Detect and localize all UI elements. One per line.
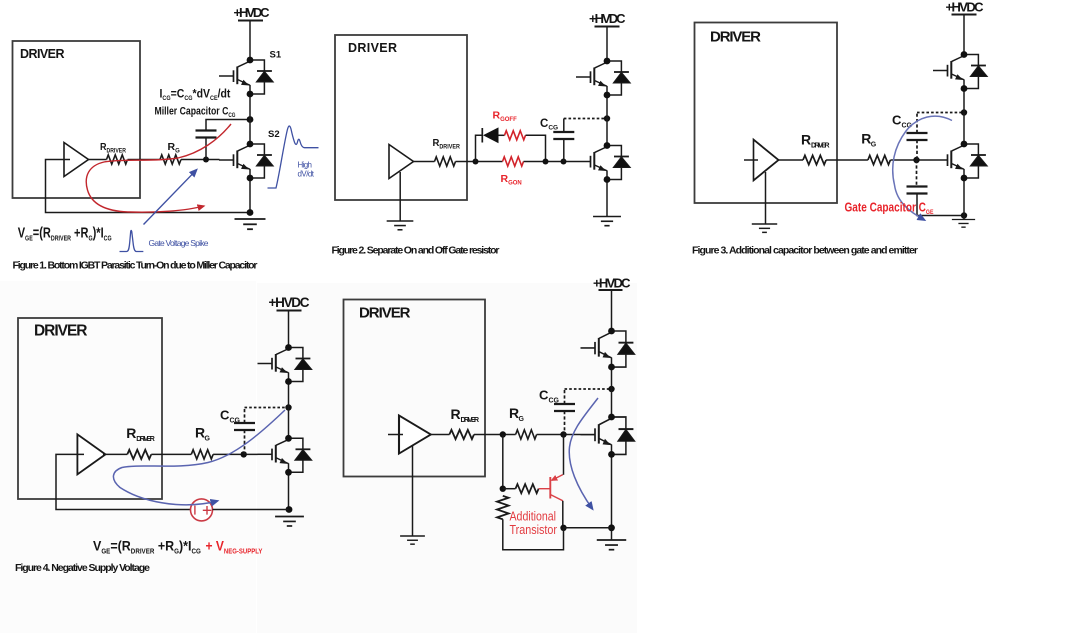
wire input feedback + bottom return F1 <box>46 160 251 213</box>
blue bypass curve F3 <box>893 116 952 220</box>
svg-text:DRIVER: DRIVER <box>20 47 65 61</box>
op-amp U3 <box>754 140 779 181</box>
svg-text:G: G <box>205 436 211 443</box>
svg-text:RG: RG <box>168 141 181 155</box>
dashed stub CCG up F4 <box>244 408 246 424</box>
svg-text:CCG: CCG <box>540 118 558 132</box>
wire op-amp to ground F3 <box>765 172 767 224</box>
svg-text:DRIVER: DRIVER <box>461 417 480 424</box>
wire bottom rail to ground F2 <box>606 180 608 217</box>
svg-text:+HVDC: +HVDC <box>269 295 310 310</box>
wire op-amp output F3 <box>779 159 804 161</box>
dashed stub CCG down F5 <box>564 411 566 435</box>
driver box F3 <box>695 23 838 204</box>
svg-text:+HVDC: +HVDC <box>234 5 271 20</box>
ground rail F3 <box>952 220 975 228</box>
figure 5 canvas tint <box>257 283 637 633</box>
driver box F2 <box>335 35 467 200</box>
red current loop curve F1 <box>86 124 231 212</box>
node emitter return F5 <box>608 524 615 531</box>
svg-text:R: R <box>451 406 461 422</box>
wire S2 emitter to ground F1 <box>249 178 251 213</box>
transistor QADD collector line <box>550 495 563 501</box>
svg-text:Figure 1. Bottom IGBT Parasiti: Figure 1. Bottom IGBT Parasitic Turn-On … <box>13 260 258 272</box>
ground driver F3 <box>752 224 777 232</box>
wire bottom rail F5 <box>611 454 613 540</box>
node bottom emitter F4 <box>285 469 292 476</box>
op-amp U4 <box>77 434 105 474</box>
node top emitter F2 <box>604 92 611 99</box>
supply bar F4 <box>277 310 302 312</box>
node base branch F5 <box>500 486 506 492</box>
capacitor CGE F3 <box>907 187 928 194</box>
svg-text:Gate Capacitor CGE: Gate Capacitor CGE <box>845 202 934 217</box>
node ground F1 <box>247 209 254 216</box>
wire off-branch up F2 <box>476 135 483 161</box>
node bottom collector F3 <box>961 141 968 148</box>
svg-text:RDRIVER: RDRIVER <box>433 138 461 151</box>
wire bottom rail F3 <box>963 178 965 220</box>
node dashed tap F4 <box>285 404 291 410</box>
wire RG to gate F4 <box>213 453 257 455</box>
transistor top IGBT F3 <box>933 55 987 89</box>
capacitor CCG F1 <box>196 131 217 138</box>
op-amp U1 <box>64 143 89 177</box>
node dashed tap F3 <box>961 109 967 115</box>
svg-text:RGON: RGON <box>501 173 522 187</box>
wire op-amp output F2 <box>414 161 435 163</box>
node gate F3 <box>913 157 919 163</box>
svg-text:G: G <box>871 141 877 148</box>
node top collector F2 <box>604 58 611 65</box>
svg-text:DRIVER: DRIVER <box>34 323 88 340</box>
wire midrail F5 <box>611 367 613 417</box>
ground F1 <box>235 219 266 229</box>
node S2 emitter <box>247 175 254 182</box>
dashed link CCG to midpoint F5 <box>565 388 612 390</box>
svg-text:Transistor: Transistor <box>510 523 558 537</box>
wire midrail F2 <box>606 95 608 146</box>
transistor S1 IGBT <box>219 60 273 94</box>
wire pulldown loop F5 <box>503 519 564 550</box>
transistor QADD base bar <box>549 477 551 499</box>
supply bar F5 <box>599 289 623 291</box>
transistor QADD emitter line <box>552 475 563 481</box>
dashed link CCG to midpoint F2 <box>564 118 607 120</box>
svg-text:Additional: Additional <box>510 510 557 524</box>
node CCG tap F5 <box>560 431 566 437</box>
blue spike glyph F1 <box>120 230 144 251</box>
dashed link CCG to midpoint F4 <box>245 407 289 409</box>
wire op-amp output F4 <box>103 453 127 455</box>
wire midrail F3 <box>963 89 965 145</box>
node S1 collector <box>247 57 254 64</box>
blue loop curve F4 <box>113 410 285 505</box>
node top collector F4 <box>285 344 292 351</box>
resistor RGON <box>503 157 524 166</box>
svg-text:Figure 4. Negative Supply Volt: Figure 4. Negative Supply Voltage <box>15 562 150 574</box>
wire branch down from node F5 <box>502 435 504 489</box>
wire RG to gate F5 <box>537 434 581 436</box>
svg-text:S2: S2 <box>268 129 280 140</box>
dashed link CCG to midpoint F3 <box>917 112 964 114</box>
svg-text:RDRIVER: RDRIVER <box>100 141 126 154</box>
resistor RG F5 <box>516 430 537 439</box>
svg-text:Figure 2. Separate On and Off: Figure 2. Separate On and Off Gate resis… <box>332 245 500 257</box>
transistor top IGBT F2 <box>576 61 630 95</box>
wire bottom link to rail F5 <box>564 527 612 529</box>
wire input stub F5 <box>388 434 403 436</box>
diode DOFF body <box>483 127 499 143</box>
wire S1 emitter to S2 collector <box>249 94 251 144</box>
dashed stub CCG down F4 <box>244 430 246 454</box>
svg-text:VGE=(RDRIVER +RG)*ICG: VGE=(RDRIVER +RG)*ICG <box>18 224 112 243</box>
node after RDRIVER F5 <box>500 431 506 437</box>
capacitor CCG F4 <box>234 423 255 430</box>
wire diode to RGOFF <box>499 134 505 136</box>
node bottom emitter F2 <box>604 176 611 183</box>
wire bottom rail F4 <box>288 472 290 509</box>
dashed stub CCG down F3 <box>916 140 918 160</box>
supply bar F3 <box>952 14 977 16</box>
resistor base F5 <box>516 484 539 493</box>
driver box F4 <box>18 318 162 499</box>
svg-text:CG: CG <box>549 398 560 405</box>
wire op-amp output F1 <box>89 159 107 161</box>
wire node to base resistor F5 <box>503 488 516 490</box>
wire QADD down to bottom node F5 <box>562 501 564 528</box>
svg-text:ICG=CCG*dVCE/dt: ICG=CCG*dVCE/dt <box>160 88 231 102</box>
wire HVDC rail F2 <box>606 27 608 62</box>
wire CGE to emitter rail F3 <box>917 194 964 216</box>
transistor bottom IGBT F2 <box>576 146 630 180</box>
node top emitter F3 <box>961 85 968 92</box>
wire RDRIVER to RG <box>128 159 161 161</box>
node QADD bottom F5 <box>560 525 566 531</box>
op-amp U5 <box>399 416 431 454</box>
supply bar F1 <box>238 20 263 22</box>
svg-text:DRIVER: DRIVER <box>348 41 397 55</box>
wire RDRIVER to RG F5 <box>474 434 516 436</box>
svg-text:C: C <box>220 408 230 423</box>
wire midrail F4 <box>288 382 290 439</box>
transistor bottom IGBT F3 <box>933 144 987 178</box>
resistor RG F1 <box>160 155 181 164</box>
resistor RDRIVER F4 <box>127 450 151 459</box>
node gate F1 <box>203 157 209 163</box>
node bottom collector F5 <box>608 414 615 421</box>
node dashed tap F2 <box>604 115 610 121</box>
svg-text:DRIVER: DRIVER <box>359 305 411 322</box>
dashed stub CCG up F3 <box>916 113 918 134</box>
node dashed tap F5 <box>608 386 614 392</box>
resistor RDRIVER F5 <box>449 430 474 439</box>
resistor RDRIVER F1 <box>107 155 128 164</box>
wire RG to gate F3 <box>890 159 933 161</box>
svg-text:CG: CG <box>230 418 241 425</box>
transistor S2 IGBT <box>219 144 273 178</box>
wire HVDC rail F3 <box>963 15 965 55</box>
node ground F4 <box>286 506 293 513</box>
capacitor CCG F2 <box>553 132 574 139</box>
node S2 collector <box>247 141 254 148</box>
resistor RG F4 <box>191 450 213 459</box>
wire gate node down to QADD F5 <box>563 435 565 475</box>
wire op-amp to ground F5 <box>412 445 414 536</box>
svg-text:dV/dt: dV/dt <box>298 170 315 179</box>
wire op-amp output F5 <box>431 434 450 436</box>
ground driver F2 <box>387 221 414 230</box>
wire input feedback + bottom return F4 <box>56 454 191 509</box>
svg-text:C: C <box>892 113 902 128</box>
node CCG tap F2 <box>561 159 567 165</box>
wire base resistor to transistor red F5 <box>539 488 551 490</box>
supply bar F2 <box>595 26 620 28</box>
svg-text:Figure 3. Additional capacitor: Figure 3. Additional capacitor between g… <box>692 245 918 257</box>
resistor pulldown F5 <box>497 496 509 520</box>
wire capacitor to midpoint node F1 <box>206 120 250 131</box>
resistor RDRIVER F2 <box>435 157 456 166</box>
svg-text:+HVDC: +HVDC <box>946 0 985 15</box>
voltage source circle F4 <box>191 499 213 521</box>
transistor bottom IGBT F5 <box>581 417 635 454</box>
label minus plus F4 <box>194 506 196 515</box>
node top emitter F4 <box>285 378 292 385</box>
svg-text:Miller Capacitor CCG: Miller Capacitor CCG <box>155 106 236 120</box>
blue gate-spike arrow F1 <box>144 170 197 225</box>
ground driver F5 <box>400 536 425 544</box>
dashed stub node to CGE F3 <box>916 160 918 187</box>
node RGOFF junction <box>543 159 549 165</box>
wire RGOFF down to gate line <box>526 135 546 161</box>
diode DOFF cathode bar <box>481 128 483 143</box>
svg-text:C: C <box>539 388 549 403</box>
node bottom collector F2 <box>604 142 611 149</box>
wire HVDC rail F5 <box>611 290 613 331</box>
wire RG to gate F1 <box>181 159 220 161</box>
wire input stub F3 <box>744 159 758 161</box>
wire RDRIVER to RG F4 <box>151 453 191 455</box>
svg-text:DRIVER: DRIVER <box>811 143 830 150</box>
wire node to capacitor CCG F1 <box>205 138 207 160</box>
transistor top IGBT F5 <box>581 331 635 367</box>
svg-text:+HVDC: +HVDC <box>593 276 631 291</box>
svg-text:S1: S1 <box>270 50 282 61</box>
svg-text:Gate Voltage Spike: Gate Voltage Spike <box>149 238 209 248</box>
wire HVDC rail F1 <box>249 21 251 61</box>
node top collector F5 <box>608 328 615 335</box>
wire HVDC rail F4 <box>288 311 290 348</box>
op-amp U2 <box>389 145 414 179</box>
wire CCG upper stub F2 <box>563 119 565 133</box>
wire op-amp to ground F2 <box>399 172 401 221</box>
svg-text:R: R <box>126 425 136 441</box>
blue discharge arrow F5 <box>569 398 598 509</box>
svg-text:DRIVER: DRIVER <box>136 436 155 443</box>
node bottom emitter F5 <box>608 451 615 458</box>
capacitor CCG F5 <box>554 404 575 411</box>
driver box F5 <box>344 300 486 477</box>
node CCG tap F1 <box>247 116 254 123</box>
transistor top IGBT F4 <box>258 348 312 382</box>
svg-text:G: G <box>519 416 525 423</box>
node emitter return F3 <box>961 212 967 218</box>
svg-text:RGOFF: RGOFF <box>493 110 518 124</box>
ground rail F2 <box>593 217 621 226</box>
ground rail F4 <box>275 517 304 526</box>
capacitor CCG F3 <box>907 133 928 140</box>
wire RDRIVER to RG F3 <box>826 159 868 161</box>
wire source to ground node F4 <box>213 509 289 511</box>
resistor RDRIVER F3 <box>803 155 826 164</box>
svg-text:High: High <box>298 161 313 170</box>
node S1 emitter <box>247 91 254 98</box>
figure 4 canvas tint <box>0 281 256 633</box>
driver box F1 <box>13 41 141 198</box>
wire RDRIVER to RGON <box>456 161 503 163</box>
node gate F4 <box>241 451 247 457</box>
wire RGON to gate F2 <box>524 161 577 163</box>
svg-text:R: R <box>801 131 811 147</box>
svg-text:DRIVER: DRIVER <box>710 29 761 46</box>
resistor RGOFF <box>505 131 526 140</box>
dashed stub CCG up F5 <box>564 389 566 404</box>
wire CCG lower stub F2 <box>563 140 565 162</box>
node top emitter F5 <box>608 364 615 371</box>
svg-text:+HVDC: +HVDC <box>589 11 626 26</box>
blue dvdt waveform F1 <box>268 126 319 188</box>
node bottom collector F4 <box>285 435 292 442</box>
node driver output F2 <box>473 159 479 165</box>
ground rail F5 <box>597 540 626 550</box>
resistor RG F3 <box>868 155 890 164</box>
node bottom emitter F3 <box>961 175 968 182</box>
transistor bottom IGBT F4 <box>258 438 312 472</box>
node top collector F3 <box>961 51 968 58</box>
